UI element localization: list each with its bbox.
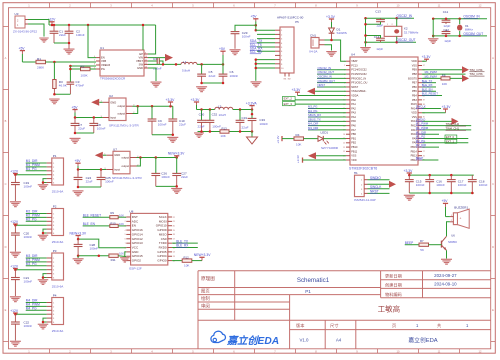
wire decoupling top rail xyxy=(408,174,474,177)
svg-text:C31: C31 xyxy=(242,116,248,120)
net label BLE_RESET xyxy=(83,213,110,217)
svg-text:X4-2A: X4-2A xyxy=(309,50,318,54)
resistor R4 xyxy=(294,133,304,146)
ground P3 pins xyxy=(38,279,49,285)
net label OSC32_IN at MCU xyxy=(317,66,346,70)
svg-text:12pF: 12pF xyxy=(376,47,383,51)
svg-text:PB6: PB6 xyxy=(412,85,417,89)
regulator U1 TPS56682 xyxy=(94,46,148,80)
wire C29 to +5V rail xyxy=(235,24,257,31)
net label BLE_RX at U8 xyxy=(172,244,198,248)
svg-text:R2: R2 xyxy=(81,64,85,68)
svg-text:5.8uH: 5.8uH xyxy=(182,69,190,73)
svg-text:R12: R12 xyxy=(184,256,190,260)
ground C20 xyxy=(10,252,21,258)
svg-text:SWCLK: SWCLK xyxy=(370,185,382,189)
svg-text:H1: H1 xyxy=(354,171,358,175)
wire C5 C6 ground rail xyxy=(200,82,224,85)
wire C24 C25 bottoms xyxy=(77,186,101,189)
svg-text:+5V: +5V xyxy=(19,46,26,50)
svg-text:TPS56682XDDCR: TPS56682XDDCR xyxy=(100,76,126,80)
svg-text:E: E xyxy=(492,308,494,312)
svg-text:U2: U2 xyxy=(109,94,113,98)
svg-text:EXT_0: EXT_0 xyxy=(446,135,454,139)
power flag +3.3V filter xyxy=(191,98,201,110)
svg-text:P4: P4 xyxy=(53,293,57,297)
wire EN to +12V xyxy=(88,25,96,58)
svg-text:10K: 10K xyxy=(119,251,124,255)
svg-text:TIM4_CH1: TIM4_CH1 xyxy=(446,126,460,130)
svg-text:EXT_2: EXT_2 xyxy=(284,97,293,101)
wire +5V down to pin1 xyxy=(255,25,257,31)
ground C2 xyxy=(64,49,75,55)
resistor R12 xyxy=(182,256,192,268)
crystal X1 xyxy=(457,19,473,36)
svg-text:PB10: PB10 xyxy=(351,145,358,149)
svg-text:EXT_1: EXT_1 xyxy=(446,140,454,144)
net label SDA_TX wire P5 pin3 xyxy=(250,39,275,44)
ground U8 xyxy=(120,257,130,262)
capacitor C11 xyxy=(442,10,451,28)
capacitor C5 xyxy=(197,64,215,83)
svg-text:10K: 10K xyxy=(442,82,447,86)
net label BLE_TX at U8 xyxy=(172,239,198,243)
capacitor C10 xyxy=(168,106,186,135)
net label BEEP at MCU xyxy=(416,156,439,160)
svg-text:11: 11 xyxy=(145,59,147,61)
svg-text:13: 13 xyxy=(173,256,175,258)
svg-text:版本: 版本 xyxy=(296,322,305,329)
capacitor C17 xyxy=(447,175,467,193)
capacitor C16 xyxy=(425,175,445,193)
wire R3 C3 ground rail xyxy=(53,93,70,96)
svg-text:L1: L1 xyxy=(183,60,187,64)
net label OSC8M_OUT crystal xyxy=(463,32,483,36)
svg-text:output: output xyxy=(118,104,126,108)
net label M3_PG xyxy=(308,105,346,109)
svg-text:VIN: VIN xyxy=(139,56,144,60)
ground open C33 xyxy=(247,132,258,145)
svg-text:5: 5 xyxy=(94,59,95,61)
wire LED1 to PB1 xyxy=(323,138,346,140)
ground C7 xyxy=(70,138,81,144)
title block table xyxy=(198,271,491,349)
svg-text:100nF: 100nF xyxy=(230,74,239,78)
svg-text:2510-6A: 2510-6A xyxy=(52,189,64,193)
capacitor C30 xyxy=(197,110,206,132)
svg-text:PB0: PB0 xyxy=(351,132,356,136)
wire U2 input rail xyxy=(74,116,103,119)
net label BLE_EN at MCU xyxy=(422,87,436,91)
net label SCL_TX wire P5 pin4 xyxy=(250,43,275,47)
ground crystal X1 xyxy=(428,38,439,44)
resistor R7 xyxy=(419,239,429,252)
svg-text:PZ254V-11-04P: PZ254V-11-04P xyxy=(354,198,375,202)
svg-text:审阅: 审阅 xyxy=(201,303,210,310)
svg-text:6: 6 xyxy=(94,63,95,65)
svg-text:NRST: NRST xyxy=(318,83,326,87)
svg-text:6: 6 xyxy=(125,239,126,241)
svg-text:2: 2 xyxy=(344,65,345,67)
resistor R8 BOOT0 xyxy=(422,73,469,86)
net label BLE_RX at MCU xyxy=(422,83,436,87)
svg-text:D: D xyxy=(492,245,494,249)
svg-text:D: D xyxy=(5,245,7,249)
ground C24 xyxy=(73,190,84,196)
power flag NEW+3.3V R12 xyxy=(192,253,211,260)
svg-text:100nF: 100nF xyxy=(458,183,467,187)
svg-text:SW: SW xyxy=(139,62,144,66)
buzzer BUZZER1 xyxy=(450,206,469,229)
svg-text:100nF: 100nF xyxy=(90,246,99,250)
wire P5 pin1 xyxy=(256,29,275,31)
ground C29 xyxy=(230,49,241,55)
svg-text:17: 17 xyxy=(173,239,175,241)
svg-text:100nF: 100nF xyxy=(153,67,162,71)
connector U3 xyxy=(13,12,37,33)
net label M4_DIR xyxy=(26,299,47,303)
ground U3 xyxy=(39,38,49,43)
svg-text:22uF: 22uF xyxy=(179,122,186,126)
svg-text:22uF: 22uF xyxy=(86,180,93,184)
connector P3 xyxy=(47,249,65,288)
net label OSC32_OUT at MCU xyxy=(317,70,346,74)
regulator U2 SPX1117 xyxy=(101,94,140,128)
svg-text:OSC32_IN: OSC32_IN xyxy=(397,14,413,18)
power flag NEW+3.3V C28 xyxy=(70,231,87,239)
svg-text:10K: 10K xyxy=(220,134,225,138)
svg-text:嘉立创EDA: 嘉立创EDA xyxy=(226,335,279,347)
svg-text:+3.3V: +3.3V xyxy=(404,169,414,173)
net label M4_PG xyxy=(26,307,47,311)
net label M2_PG xyxy=(26,218,47,222)
svg-text:+3.3V: +3.3V xyxy=(422,55,432,59)
wire +12V P4 xyxy=(14,313,46,316)
svg-text:20: 20 xyxy=(173,226,175,228)
resistor R9 xyxy=(110,211,127,219)
capacitor C29 xyxy=(231,31,251,49)
svg-text:SWCLK: SWCLK xyxy=(416,105,426,109)
net label M1_DIR xyxy=(26,159,47,163)
svg-text:OSC32_OUT: OSC32_OUT xyxy=(397,38,416,42)
capacitor C12 xyxy=(442,28,452,43)
svg-text:100nF: 100nF xyxy=(158,122,167,126)
resistor R1 xyxy=(36,57,46,69)
net label SBUS_RX xyxy=(308,113,346,117)
svg-text:+3.3V: +3.3V xyxy=(326,15,336,19)
svg-text:B: B xyxy=(5,119,7,123)
svg-text:BLE_RESET: BLE_RESET xyxy=(422,92,438,96)
svg-text:2510-6A: 2510-6A xyxy=(52,284,64,288)
title block texts xyxy=(201,273,469,344)
port box EXT_2 xyxy=(283,96,347,100)
net label SWCLK at H1 xyxy=(368,185,390,189)
port arrow U2 GND xyxy=(91,99,102,106)
svg-text:C4: C4 xyxy=(153,57,157,61)
power flag +3.3V VDD top xyxy=(422,55,432,61)
svg-text:NRST: NRST xyxy=(370,190,379,194)
svg-text:100nF: 100nF xyxy=(76,33,85,37)
svg-text:100nF: 100nF xyxy=(105,180,114,184)
svg-text:SCL_RX: SCL_RX xyxy=(250,50,263,54)
ground C5 xyxy=(196,86,207,92)
capacitor C18 xyxy=(468,175,488,193)
svg-text:2510-6A: 2510-6A xyxy=(52,240,64,244)
net label SWDIO arrow xyxy=(416,117,459,124)
ground C19 xyxy=(10,201,21,207)
svg-text:C: C xyxy=(492,182,494,186)
wire +12V P3 xyxy=(14,268,46,271)
wire OSC8M_IN crystal xyxy=(432,17,487,20)
svg-text:2024-09-27: 2024-09-27 xyxy=(434,273,457,278)
svg-text:GPIO0: GPIO0 xyxy=(157,259,167,263)
svg-text:ESP-12F: ESP-12F xyxy=(129,266,142,270)
svg-text:NRST: NRST xyxy=(351,85,358,89)
ground R3 xyxy=(49,99,60,105)
svg-text:22uF: 22uF xyxy=(209,74,216,78)
wire SW to L1 xyxy=(148,63,181,66)
svg-text:M2_DIR: M2_DIR xyxy=(416,143,426,147)
svg-text:APA07-S10FCC-00: APA07-S10FCC-00 xyxy=(277,16,304,20)
svg-text:P5: P5 xyxy=(295,20,299,24)
svg-text:7: 7 xyxy=(125,243,126,245)
ground C10 xyxy=(167,137,178,143)
svg-text:A: A xyxy=(492,56,494,60)
power flag +12V P4 xyxy=(10,309,19,314)
svg-text:U3: U3 xyxy=(15,12,19,16)
wire C26 C27 bottoms xyxy=(156,185,178,188)
svg-text:OSC8M_OUT: OSC8M_OUT xyxy=(463,32,483,36)
capacitor C32 xyxy=(206,110,222,132)
capacitor C33 xyxy=(248,110,269,132)
svg-text:+3.3V: +3.3V xyxy=(292,88,302,92)
capacitor C7 xyxy=(71,118,86,134)
resistor R11 xyxy=(109,251,126,262)
net label OSC8M_IN at MCU xyxy=(317,74,346,78)
svg-text:PB9: PB9 xyxy=(412,68,417,72)
net label M2_PWM TIM4_CH2 xyxy=(416,122,471,126)
svg-text:+3.3V: +3.3V xyxy=(442,105,452,109)
svg-text:input: input xyxy=(114,168,120,172)
svg-text:+3.3V: +3.3V xyxy=(166,98,176,102)
svg-text:100nF: 100nF xyxy=(24,280,33,284)
wire U3 pin2 to ground xyxy=(28,24,44,37)
svg-text:嘉立创EDA: 嘉立创EDA xyxy=(408,336,437,344)
power flag +5V U2 xyxy=(72,105,79,117)
net label NRST at H1 xyxy=(368,190,390,194)
net label M3_PG xyxy=(26,262,47,266)
svg-text:100nF: 100nF xyxy=(24,235,33,239)
svg-text:PA1: PA1 xyxy=(351,102,356,106)
power flag +5V R1 xyxy=(19,46,26,62)
svg-text:280K: 280K xyxy=(37,65,44,69)
svg-text:100nF: 100nF xyxy=(212,124,221,128)
svg-text:C11: C11 xyxy=(443,10,449,14)
svg-text:BUZZER1: BUZZER1 xyxy=(454,206,468,210)
svg-text:PA0: PA0 xyxy=(351,98,356,102)
inductor L1 xyxy=(181,60,197,73)
wire +5V to R1 xyxy=(22,61,36,63)
svg-text:PA4: PA4 xyxy=(351,115,356,119)
svg-text:PA7: PA7 xyxy=(351,128,356,132)
wire R2 left node xyxy=(69,66,80,82)
svg-text:input: input xyxy=(110,116,116,120)
capacitor C19 xyxy=(11,175,32,201)
wire CN1 pin1 to VBAT xyxy=(325,39,347,61)
net label M2_DIR xyxy=(26,210,47,214)
power flag +3.3V VDD mid xyxy=(422,105,451,113)
svg-text:10K: 10K xyxy=(296,142,301,146)
svg-text:+5V: +5V xyxy=(72,105,79,109)
wire C9 C10 bottoms xyxy=(152,134,174,137)
wire OSC32_OUT crystal xyxy=(364,41,416,44)
svg-text:20: 20 xyxy=(343,143,345,145)
net label OSC32_IN crystal xyxy=(397,14,413,18)
wire C28 bottom node xyxy=(77,254,109,257)
svg-text:18: 18 xyxy=(173,234,175,236)
net label OSC8M_OUT at MCU xyxy=(317,79,346,83)
svg-text:5: 5 xyxy=(125,234,126,236)
svg-text:VDD: VDD xyxy=(411,111,417,115)
wire filter top rail left xyxy=(197,108,215,111)
ground C28 xyxy=(73,256,84,265)
svg-text:P1: P1 xyxy=(53,154,57,158)
svg-text:VREG5: VREG5 xyxy=(101,63,111,67)
capacitor C20 xyxy=(11,225,32,251)
wire buzzer pin2 to collector xyxy=(447,222,450,237)
wire EP loop to rail xyxy=(142,24,156,54)
svg-text:B: B xyxy=(492,119,494,123)
port arrow H1 gnd xyxy=(368,181,397,188)
svg-text:+: + xyxy=(460,217,462,221)
svg-text:A4: A4 xyxy=(336,337,342,342)
svg-text:NEW+3.3V: NEW+3.3V xyxy=(70,231,87,235)
svg-text:+5V: +5V xyxy=(75,159,82,163)
svg-text:+5V: +5V xyxy=(442,199,449,203)
ground P4 pins xyxy=(38,324,49,330)
capacitor C14 xyxy=(366,35,385,51)
wire emitter to ground xyxy=(446,250,448,258)
ground C27 xyxy=(171,188,182,194)
svg-text:100nF: 100nF xyxy=(24,324,33,328)
svg-text:EP: EP xyxy=(139,52,143,56)
inductor L2 xyxy=(215,105,233,117)
svg-text:GPIO2: GPIO2 xyxy=(132,259,142,263)
svg-text:S10WS: S10WS xyxy=(337,31,347,35)
svg-text:+3.3V: +3.3V xyxy=(191,98,201,102)
wire OSC8M_OUT crystal xyxy=(432,35,487,38)
resistor R3 xyxy=(53,62,67,94)
svg-text:C14: C14 xyxy=(374,35,380,39)
net label SWCLK xyxy=(416,105,441,109)
net label SCL_RX wire P5 pin6 xyxy=(250,50,275,54)
wire OSC32_IN crystal xyxy=(364,17,414,20)
ground buzzer xyxy=(441,259,452,265)
svg-text:Schematic1: Schematic1 xyxy=(297,277,330,284)
svg-text:OSC8M_IN: OSC8M_IN xyxy=(463,15,480,19)
diode D1 xyxy=(329,28,347,40)
ground filter xyxy=(194,132,204,138)
net label M2_PG EXT_1 xyxy=(416,139,469,144)
net label BLE_RESET at MCU xyxy=(422,92,442,96)
svg-text:1: 1 xyxy=(344,61,345,63)
power flag +5V U7 xyxy=(75,159,82,170)
svg-text:工敏高: 工敏高 xyxy=(378,304,401,314)
wire R2 to PG xyxy=(90,68,96,70)
svg-text:BOOT0: BOOT0 xyxy=(408,76,417,80)
svg-text:100nF: 100nF xyxy=(97,127,106,131)
svg-text:VBAT: VBAT xyxy=(351,59,358,63)
net label M1_PG xyxy=(26,167,47,171)
resistor R10 xyxy=(110,221,127,227)
svg-text:R1: R1 xyxy=(37,57,41,61)
net label M2_PWM xyxy=(26,214,47,218)
svg-text:R10: R10 xyxy=(110,221,116,225)
svg-text:U4: U4 xyxy=(351,53,355,57)
wire P5 pins 8-10 to ground xyxy=(255,58,275,80)
svg-text:22uF: 22uF xyxy=(242,125,249,129)
svg-text:+3.3V: +3.3V xyxy=(296,155,300,163)
wire R4 to LED1 xyxy=(304,138,319,140)
net label BEEP buzzer xyxy=(405,241,419,245)
svg-text:18: 18 xyxy=(343,134,345,136)
capacitor C9 xyxy=(148,106,167,135)
svg-text:C12: C12 xyxy=(443,28,449,32)
svg-text:VSSA/VREF-: VSSA/VREF- xyxy=(351,89,366,93)
svg-text:10K: 10K xyxy=(119,222,124,226)
svg-text:NEW+3.3V: NEW+3.3V xyxy=(194,253,211,257)
svg-text:+5V: +5V xyxy=(251,15,258,19)
svg-text:4: 4 xyxy=(125,230,126,232)
svg-text:TIM_CH3: TIM_CH3 xyxy=(469,72,483,76)
wire filter top rail right xyxy=(233,108,253,111)
wire U7 pin2 tie xyxy=(137,158,141,167)
svg-text:STM32F302CBT6: STM32F302CBT6 xyxy=(349,166,377,170)
svg-text:C30: C30 xyxy=(199,112,205,116)
net label OSC8M_IN crystal xyxy=(463,15,480,19)
svg-text:100nF: 100nF xyxy=(436,183,445,187)
wire P5 pin2 xyxy=(257,33,275,35)
svg-text:U8: U8 xyxy=(129,210,133,214)
svg-text:19: 19 xyxy=(173,230,175,232)
svg-text:100nF: 100nF xyxy=(24,185,33,189)
regulator U7 SPX1117 xyxy=(104,147,142,180)
svg-text:PC14/OSC32: PC14/OSC32 xyxy=(351,68,367,72)
power flag +12V P3 xyxy=(10,265,19,270)
svg-text:VBST: VBST xyxy=(136,59,143,63)
svg-text:ZX-0143.96-2P22: ZX-0143.96-2P22 xyxy=(13,29,37,33)
net label M1_PWM TIM4_CH1 xyxy=(416,126,471,130)
net label M3_DIR xyxy=(308,126,346,130)
svg-text:P1: P1 xyxy=(305,289,311,294)
net label M3_DIR xyxy=(26,254,47,258)
capacitor C28 xyxy=(74,239,99,256)
capacitor C15 xyxy=(405,175,425,193)
wire VREG5 to node xyxy=(69,65,96,68)
resistor R13 xyxy=(220,127,229,139)
power flag NEW+3.3V U7 out xyxy=(168,152,185,158)
svg-text:9: 9 xyxy=(145,52,146,54)
ground U1 xyxy=(151,82,162,88)
svg-text:BEEP: BEEP xyxy=(416,156,424,160)
svg-text:12pF: 12pF xyxy=(376,24,383,28)
net label M4_PWM TIM_CH4 xyxy=(422,66,485,74)
svg-text:VDDA: VDDA xyxy=(351,93,358,97)
svg-text:共: 共 xyxy=(437,322,441,329)
svg-text:100K: 100K xyxy=(81,73,88,77)
svg-text:C32: C32 xyxy=(212,112,218,116)
net label M4_DIR xyxy=(308,122,346,126)
